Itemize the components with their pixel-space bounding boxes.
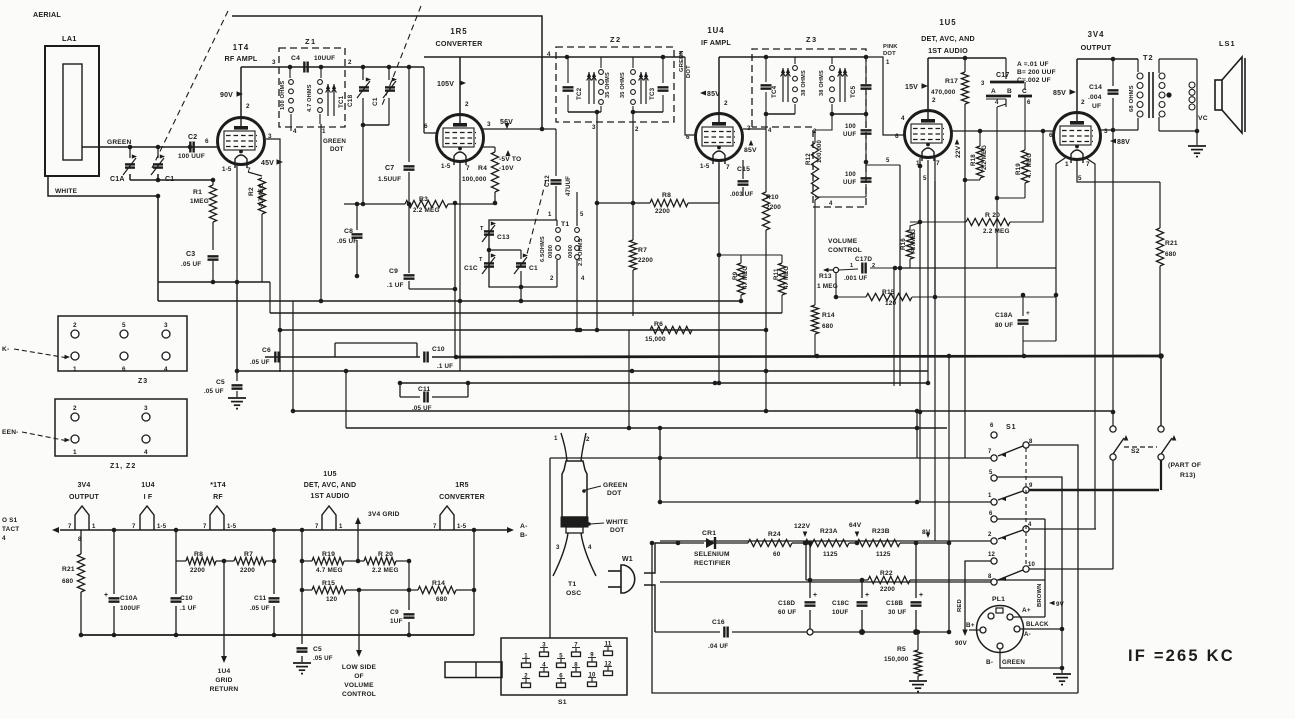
wire antenna ground drop [157, 196, 159, 301]
svg-text:9: 9 [1029, 483, 1033, 489]
svg-text:RF: RF [213, 494, 223, 501]
svg-text:PL1: PL1 [992, 596, 1005, 603]
ground C5 upper [228, 397, 246, 399]
svg-text:1U4: 1U4 [141, 482, 154, 489]
bold B minus bus [456, 356, 1161, 357]
svg-text:10UF: 10UF [832, 609, 848, 616]
svg-text:TC1: TC1 [338, 95, 345, 108]
wire cathode V3 drop [718, 161, 720, 383]
svg-text:7: 7 [433, 524, 437, 530]
svg-text:1-5: 1-5 [227, 524, 237, 530]
ground PL1 circuit [1061, 629, 1063, 673]
svg-text:6: 6 [686, 134, 690, 141]
slug arrows TC3 [640, 72, 642, 104]
wire Z3 bottom [815, 196, 866, 198]
svg-text:UF: UF [1092, 103, 1101, 110]
terminal board Z1 Z2 box [55, 399, 187, 456]
svg-text:2: 2 [73, 405, 77, 412]
svg-text:C13: C13 [497, 234, 510, 241]
wire V2 grid2 line [483, 128, 556, 130]
svg-text:3V4: 3V4 [77, 482, 90, 489]
slug TC1 [327, 84, 329, 116]
svg-text:1: 1 [886, 60, 890, 66]
bus line y330 [280, 329, 767, 331]
osc sub box [489, 220, 557, 287]
svg-text:C17: C17 [996, 72, 1009, 79]
svg-text:1U5: 1U5 [939, 18, 956, 27]
svg-text:DET, AVC, AND: DET, AVC, AND [921, 34, 975, 43]
svg-text:R21: R21 [1165, 240, 1178, 247]
svg-text:.05 UF: .05 UF [181, 261, 201, 268]
svg-text:BROWN: BROWN [1037, 583, 1043, 607]
svg-text:C2: C2 [188, 134, 197, 141]
wire S1 feed 541 [660, 540, 991, 542]
slug arrows TC5 [839, 68, 841, 102]
svg-text:A-: A- [1024, 631, 1031, 638]
wire V5 pin7 drop [1086, 158, 1095, 529]
svg-text:1ST AUDIO: 1ST AUDIO [928, 46, 968, 55]
svg-text:LA1: LA1 [62, 34, 77, 43]
svg-text:A-: A- [520, 523, 528, 530]
svg-text:R14: R14 [822, 312, 835, 319]
wire pin10 right [1029, 568, 1113, 570]
svg-text:C5: C5 [216, 379, 225, 386]
osc grid marker -5V to -10V [505, 150, 510, 156]
svg-text:1: 1 [988, 493, 992, 499]
chart bottom bus [81, 634, 474, 636]
svg-text:15V: 15V [905, 84, 918, 91]
svg-text:680: 680 [822, 323, 834, 330]
svg-text:.05 UF: .05 UF [204, 388, 224, 395]
svg-text:CONTROL: CONTROL [828, 247, 862, 254]
svg-text:1-5: 1-5 [457, 524, 467, 530]
svg-text:.004: .004 [1088, 94, 1102, 101]
svg-text:5: 5 [580, 212, 584, 218]
svg-text:C10: C10 [180, 595, 193, 602]
wire top line to Z2 [424, 56, 567, 58]
svg-text:DOT: DOT [610, 527, 625, 534]
85V screen marker [749, 140, 754, 146]
wire 1U5 pin7 drop chart [301, 530, 303, 644]
svg-text:2200: 2200 [190, 567, 205, 574]
svg-text:3V4: 3V4 [1088, 30, 1105, 39]
svg-text:1: 1 [339, 524, 343, 530]
wire avc link vertical [292, 301, 294, 411]
svg-text:-5V TO: -5V TO [499, 156, 521, 163]
svg-text:R8: R8 [662, 192, 671, 199]
capacitor TC2 cap [563, 86, 574, 88]
svg-text:CONVERTER: CONVERTER [439, 494, 485, 501]
svg-text:88V: 88V [1117, 139, 1130, 146]
bus line y313 [270, 312, 782, 314]
svg-text:C10A: C10A [120, 595, 138, 602]
svg-text:C9: C9 [389, 268, 398, 275]
svg-text:RETURN: RETURN [210, 686, 239, 693]
top feed line [232, 16, 542, 129]
svg-text:38 OHMS: 38 OHMS [801, 70, 807, 96]
svg-text:.04 UF: .04 UF [708, 643, 728, 650]
bus line y343 bypass [335, 342, 417, 344]
svg-text:GREEN: GREEN [603, 482, 627, 489]
wire R3 node drop [454, 203, 456, 357]
svg-text:5: 5 [1078, 175, 1082, 182]
svg-text:T1: T1 [561, 221, 569, 228]
88V marker [1110, 138, 1116, 143]
bus line y371 [237, 370, 928, 372]
svg-text:.003 UF: .003 UF [730, 191, 753, 198]
T1 leads bottom [553, 533, 568, 576]
wire 3V4 grid arrow [357, 524, 359, 561]
svg-text:K-: K- [2, 346, 9, 353]
svg-text:680: 680 [436, 596, 448, 603]
svg-text:UUF: UUF [843, 131, 856, 138]
svg-text:C16: C16 [712, 619, 725, 626]
svg-text:3: 3 [164, 322, 168, 329]
svg-text:.05 UF: .05 UF [313, 655, 333, 662]
svg-text:R4: R4 [478, 165, 487, 172]
svg-text:2200: 2200 [880, 586, 895, 593]
svg-text:R17: R17 [945, 78, 958, 85]
svg-text:GREEN: GREEN [323, 138, 346, 145]
wire antenna node y282 [158, 281, 270, 283]
svg-text:5: 5 [122, 322, 126, 329]
svg-text:RECTIFIER: RECTIFIER [694, 560, 731, 567]
svg-text:85V: 85V [707, 91, 720, 98]
wire S2 lower right drop [1160, 460, 1162, 490]
svg-text:7: 7 [988, 449, 992, 455]
Z3 board pins [71, 330, 79, 338]
capacitor TC3 cap [658, 86, 669, 88]
svg-text:Z3: Z3 [138, 378, 148, 385]
svg-text:R5: R5 [897, 646, 906, 653]
svg-text:CONVERTER: CONVERTER [436, 39, 484, 48]
svg-text:12: 12 [988, 552, 996, 558]
wire plate riser V5 [1076, 59, 1078, 112]
svg-text:Z1, Z2: Z1, Z2 [110, 463, 136, 470]
svg-text:45V: 45V [261, 160, 274, 167]
svg-text:OSC: OSC [566, 590, 581, 597]
svg-text:1U4: 1U4 [218, 668, 231, 675]
svg-text:C1C: C1C [464, 265, 478, 272]
svg-text:8: 8 [988, 574, 992, 580]
bus line y383 [400, 382, 928, 384]
svg-text:.1 UF: .1 UF [387, 282, 404, 289]
socket bump 1U4 [140, 506, 154, 530]
svg-text:6: 6 [990, 423, 994, 429]
svg-text:C1: C1 [529, 265, 538, 272]
svg-text:2.2 MEG: 2.2 MEG [372, 567, 399, 574]
svg-text:CR1: CR1 [702, 530, 716, 537]
wire pin6b right [997, 518, 1045, 520]
wire R19 bottom [997, 197, 1025, 199]
wire 88V drop [1112, 130, 1114, 429]
wire Z2 pri bottom [568, 111, 601, 113]
svg-text:6: 6 [205, 138, 209, 145]
svg-text:2: 2 [635, 126, 639, 133]
svg-text:(PART OF: (PART OF [1168, 462, 1201, 469]
svg-text:TC5: TC5 [850, 85, 857, 98]
wire C1A/C1 bottoms [130, 179, 158, 181]
svg-text:4: 4 [2, 535, 6, 542]
svg-text:VOLUME: VOLUME [828, 238, 858, 245]
svg-text:2: 2 [724, 100, 728, 107]
svg-text:B-: B- [986, 659, 993, 666]
svg-text:60: 60 [773, 551, 781, 558]
svg-text:30 UF: 30 UF [888, 609, 906, 616]
svg-text:1: 1 [850, 263, 853, 269]
wire LA1 white lead [48, 176, 158, 196]
svg-text:2: 2 [872, 263, 875, 269]
wire 1U4 grid return drop [223, 561, 225, 656]
svg-text:100 OHMS: 100 OHMS [280, 81, 286, 110]
svg-text:1: 1 [92, 524, 96, 530]
svg-text:C18C: C18C [832, 600, 849, 607]
svg-text:.05 UF: .05 UF [250, 605, 270, 612]
wire V3 plate to Z3 [719, 56, 766, 58]
svg-text:R23A: R23A [820, 528, 838, 535]
svg-text:SELENIUM: SELENIUM [694, 551, 730, 558]
svg-text:T: T [480, 226, 484, 232]
wire V4 pin wires [919, 158, 921, 166]
ground C5 chart [293, 662, 311, 664]
svg-text:GREEN: GREEN [107, 139, 131, 146]
svg-text:TACT: TACT [2, 526, 19, 533]
gang dashed line 1 [152, 11, 228, 168]
svg-text:3: 3 [272, 59, 276, 66]
svg-text:C18D: C18D [778, 600, 795, 607]
svg-text:I F: I F [144, 494, 153, 501]
wire S2 right to bold bus [1160, 432, 1162, 454]
svg-text:100UF: 100UF [120, 605, 140, 612]
svg-text:2200: 2200 [638, 257, 653, 264]
svg-text:1: 1 [554, 435, 558, 442]
wire low side volume drop [358, 590, 360, 650]
wire frame left [549, 458, 551, 638]
Z1Z2 board pins [71, 413, 79, 421]
svg-text:EEN-: EEN- [2, 429, 19, 436]
svg-text:1: 1 [73, 449, 77, 456]
svg-text:2: 2 [73, 322, 77, 329]
svg-text:2200: 2200 [655, 208, 670, 215]
svg-text:+: + [865, 592, 869, 599]
svg-text:+: + [104, 592, 108, 599]
bus line y428 [346, 427, 947, 429]
wire plate riser V4 [927, 58, 929, 110]
svg-text:3: 3 [1104, 128, 1108, 135]
svg-text:3V4 GRID: 3V4 GRID [368, 511, 400, 518]
svg-text:DOT: DOT [883, 51, 896, 57]
svg-text:S1: S1 [558, 699, 567, 706]
svg-text:4: 4 [293, 128, 297, 135]
svg-text:35 OHMS: 35 OHMS [620, 72, 626, 98]
svg-text:3: 3 [487, 121, 491, 128]
svg-text:C18: C18 [347, 94, 354, 107]
wire V4 plate out [951, 130, 1053, 132]
svg-text:R24: R24 [768, 531, 781, 538]
svg-text:64V: 64V [849, 522, 862, 529]
svg-text:35 OHMS: 35 OHMS [605, 72, 611, 98]
wire mid verticals [559, 298, 561, 345]
svg-text:2: 2 [988, 532, 992, 538]
svg-text:LS1: LS1 [1219, 39, 1236, 48]
svg-text:A =.01 UF: A =.01 UF [1017, 61, 1049, 68]
svg-text:4: 4 [768, 128, 772, 134]
svg-text:Z1: Z1 [305, 37, 317, 46]
wire frame bottom outer [652, 543, 1078, 693]
svg-text:DET, AVC, AND: DET, AVC, AND [304, 482, 357, 489]
svg-text:-10V: -10V [499, 165, 514, 172]
svg-text:+: + [813, 592, 817, 599]
svg-text:15,000: 15,000 [645, 336, 666, 343]
svg-text:R15: R15 [322, 580, 335, 587]
wire filament left jog [659, 428, 661, 502]
svg-text:1 MEG: 1 MEG [817, 283, 838, 290]
svg-text:GRID: GRID [215, 677, 232, 684]
svg-text:120: 120 [326, 596, 338, 603]
svg-text:C6: C6 [262, 347, 271, 354]
wire V4 top line [928, 57, 1006, 59]
wire plate riser V1 [240, 67, 242, 117]
svg-text:.1 UF: .1 UF [437, 363, 453, 370]
svg-text:100: 100 [845, 123, 856, 130]
svg-text:S2: S2 [1131, 448, 1140, 455]
svg-text:IF AMPL: IF AMPL [701, 38, 731, 47]
svg-text:C5: C5 [313, 646, 322, 653]
socket bump 3V4 [75, 506, 89, 530]
svg-text:LOW SIDE: LOW SIDE [342, 664, 377, 671]
svg-text:1U5: 1U5 [323, 471, 336, 478]
svg-text:470,000: 470,000 [931, 89, 956, 96]
svg-text:R13: R13 [819, 273, 832, 280]
wire S2 lower left drop [1112, 460, 1114, 569]
svg-text:1-5: 1-5 [157, 524, 167, 530]
wire Z2 pin2 drop [632, 112, 634, 203]
svg-text:Z3: Z3 [806, 35, 818, 44]
svg-text:80 UF: 80 UF [995, 322, 1013, 329]
wire Z2 pin1 to V3 grid [685, 57, 696, 135]
svg-text:B+: B+ [966, 622, 975, 629]
bus line y301 [158, 300, 741, 302]
svg-text:6: 6 [1049, 132, 1053, 139]
svg-text:2.5 OHMS: 2.5 OHMS [578, 238, 584, 266]
svg-text:VOLUME: VOLUME [344, 682, 374, 689]
wire pin4 right [1029, 528, 1096, 530]
svg-text:DOT: DOT [330, 146, 344, 153]
svg-text:3: 3 [592, 124, 596, 131]
svg-text:C1A: C1A [110, 176, 125, 183]
svg-text:R2: R2 [248, 187, 255, 196]
wire Z2 top inner [567, 56, 663, 58]
svg-text:R18: R18 [970, 154, 977, 166]
wire plug to B minus line [644, 585, 655, 632]
wire Z3 top inner [766, 56, 866, 58]
svg-text:680: 680 [1165, 251, 1177, 258]
svg-text:T: T [479, 257, 483, 263]
T1 leads top [561, 433, 567, 461]
terminal board Z3 box [58, 316, 187, 371]
wire V5 pin5 drop [1076, 160, 1078, 182]
T2 secondary [1159, 73, 1165, 79]
svg-text:680: 680 [62, 578, 74, 585]
svg-text:4: 4 [901, 115, 905, 122]
wire Z1 pin4 stub [290, 124, 292, 131]
svg-text:1UF: 1UF [390, 618, 403, 625]
svg-text:1: 1 [1065, 161, 1069, 168]
wire LA1 feed to grid line [82, 146, 218, 148]
svg-text:7: 7 [315, 524, 319, 530]
wire V1 cathode drop [236, 165, 238, 371]
svg-text:7: 7 [132, 524, 136, 530]
svg-text:UUF: UUF [843, 179, 856, 186]
wire C17 C leg [1024, 96, 1026, 118]
9V marker [1049, 601, 1055, 606]
svg-text:1R5: 1R5 [455, 482, 468, 489]
wire R2 node corner [269, 282, 271, 313]
svg-text:1125: 1125 [876, 551, 891, 558]
wire V5 screen out [1101, 129, 1138, 131]
chart bus wire [60, 529, 508, 531]
wire S1 feed 582 [660, 581, 991, 583]
wire rect out right [949, 542, 994, 544]
wire Z3 pin4 drop [765, 114, 767, 129]
svg-text:*1T4: *1T4 [210, 482, 226, 489]
svg-text:2: 2 [1081, 99, 1085, 106]
svg-text:R1: R1 [193, 189, 202, 196]
svg-text:5: 5 [886, 158, 890, 164]
gang dashed line 2 [381, 6, 421, 108]
svg-text:4.7 OHMS: 4.7 OHMS [307, 84, 313, 112]
gang dashed line 3 [527, 180, 546, 254]
slug arrows TC4 [782, 68, 784, 102]
svg-text:C18B: C18B [886, 600, 903, 607]
svg-text:.001 UF: .001 UF [844, 275, 867, 282]
svg-text:C4: C4 [291, 55, 300, 62]
bus line y411 [293, 410, 1113, 412]
svg-text:VC: VC [1198, 115, 1208, 122]
svg-text:100: 100 [845, 171, 856, 178]
svg-text:4: 4 [144, 449, 148, 456]
osc coil T1 body [562, 461, 587, 517]
svg-text:85V: 85V [744, 147, 757, 154]
ground R5 [909, 680, 927, 682]
svg-text:IF =265 KC: IF =265 KC [1128, 647, 1235, 665]
svg-text:O S1: O S1 [2, 517, 18, 524]
svg-text:R23B: R23B [872, 528, 890, 535]
Z2 primary coil [599, 70, 604, 75]
svg-text:C3: C3 [186, 251, 195, 258]
svg-text:2200: 2200 [240, 567, 255, 574]
svg-text:4.7 MEG: 4.7 MEG [316, 567, 343, 574]
wire plate riser V3 [718, 57, 720, 113]
wire C17D to 3V4 grid net [895, 267, 1056, 269]
svg-text:1ST AUDIO: 1ST AUDIO [311, 493, 350, 500]
ground T2 [1196, 131, 1198, 145]
svg-text:RF AMPL: RF AMPL [224, 54, 257, 63]
wire plate riser V2 [459, 57, 461, 114]
svg-text:6: 6 [424, 123, 428, 130]
svg-text:6.5OHMS: 6.5OHMS [540, 236, 546, 262]
svg-text:B-: B- [520, 532, 528, 539]
svg-text:1: 1 [548, 212, 552, 218]
svg-text:.05 UF: .05 UF [337, 238, 357, 245]
svg-text:DOT: DOT [686, 65, 692, 78]
svg-text:4: 4 [164, 366, 168, 373]
svg-text:2: 2 [348, 59, 352, 66]
wire brown drop [1044, 519, 1046, 617]
svg-text:7: 7 [1086, 161, 1090, 168]
Z3 primary coil [793, 66, 798, 71]
svg-text:122V: 122V [794, 523, 811, 530]
